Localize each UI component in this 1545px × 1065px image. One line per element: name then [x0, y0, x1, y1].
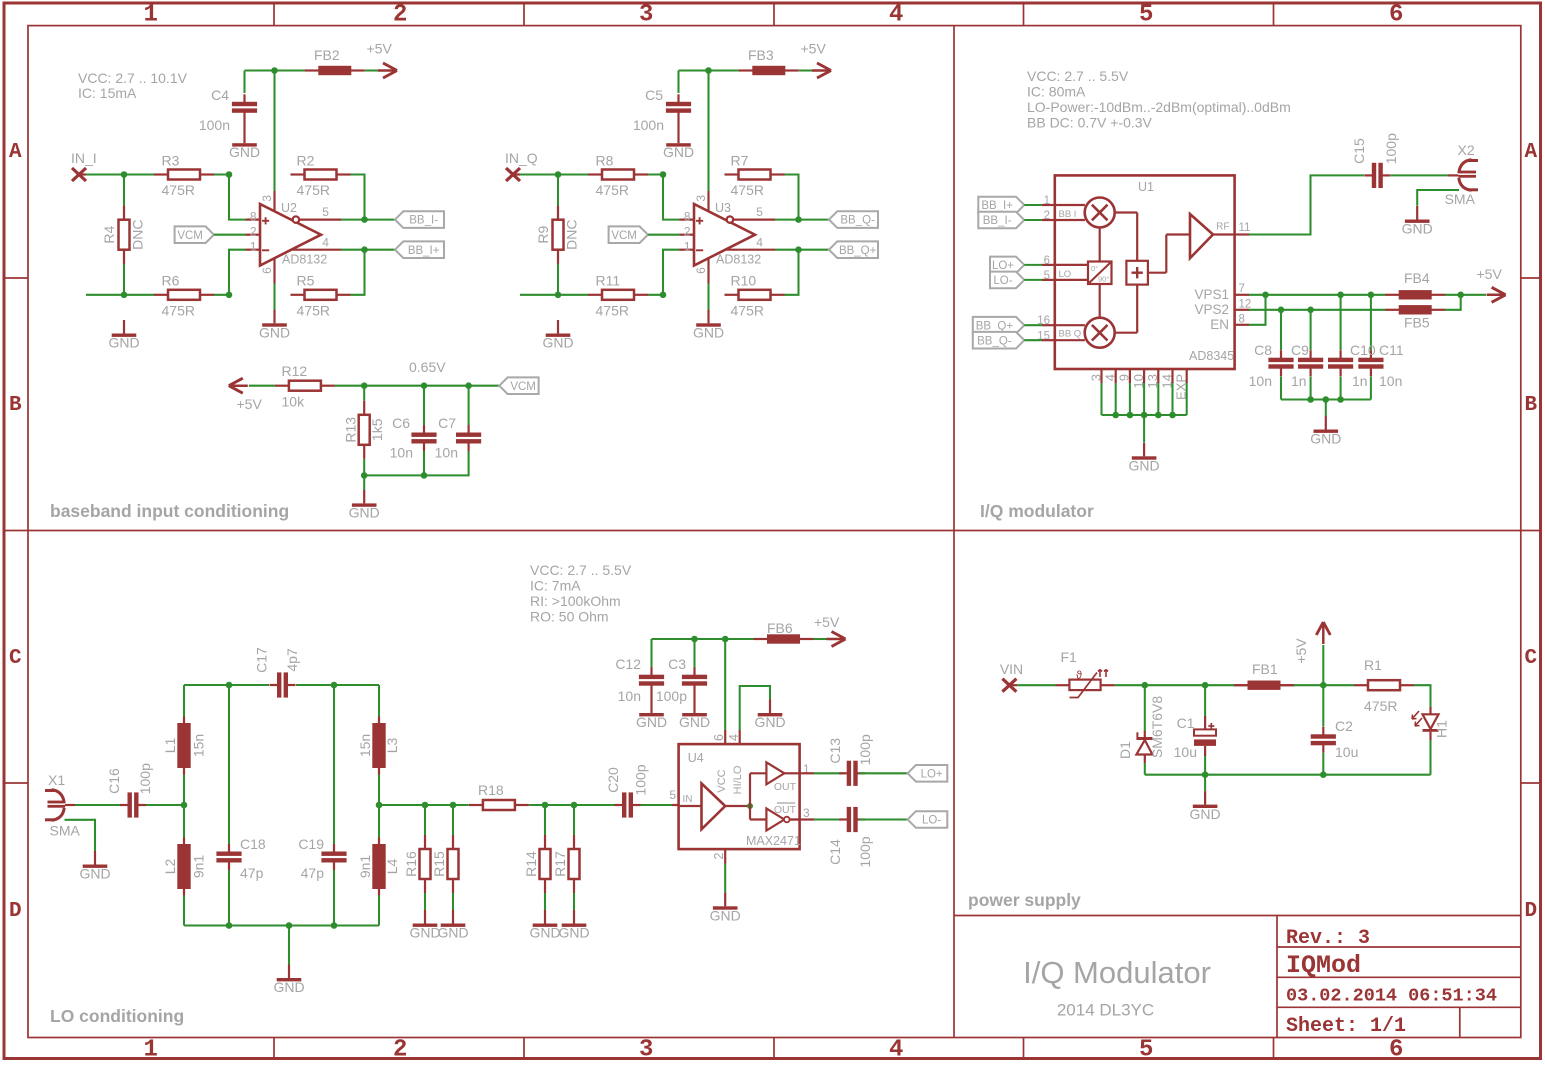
svg-text:5: 5 — [1139, 2, 1153, 29]
svg-text:+5V: +5V — [1477, 266, 1503, 282]
svg-text:6: 6 — [694, 267, 708, 274]
svg-text:R16: R16 — [403, 851, 419, 877]
svg-text:VPS1: VPS1 — [1194, 287, 1229, 302]
svg-text:100n: 100n — [199, 117, 230, 133]
svg-text:IC: 80mA: IC: 80mA — [1027, 84, 1086, 100]
svg-text:C3: C3 — [668, 656, 686, 672]
svg-text:03.02.2014 06:51:34: 03.02.2014 06:51:34 — [1286, 986, 1497, 1007]
svg-text:475R: 475R — [297, 182, 330, 198]
svg-text:R4: R4 — [101, 226, 117, 244]
svg-text:R9: R9 — [535, 226, 551, 244]
svg-text:13: 13 — [1145, 374, 1160, 388]
svg-text:U1: U1 — [1138, 180, 1154, 194]
svg-text:LO: LO — [1059, 269, 1072, 280]
svg-text:FB1: FB1 — [1252, 661, 1278, 677]
svg-text:4p7: 4p7 — [284, 648, 300, 672]
svg-text:A: A — [1525, 141, 1538, 164]
svg-text:AD8132: AD8132 — [282, 252, 327, 266]
svg-text:9n1: 9n1 — [357, 855, 373, 879]
svg-text:3: 3 — [639, 1037, 653, 1064]
svg-text:R3: R3 — [162, 153, 180, 169]
svg-text:C1: C1 — [1177, 715, 1195, 731]
svg-text:GND: GND — [229, 144, 260, 160]
svg-text:I/Q Modulator: I/Q Modulator — [1023, 955, 1211, 990]
svg-text:7: 7 — [1239, 283, 1245, 295]
svg-text:C13: C13 — [827, 738, 843, 764]
svg-text:LO+: LO+ — [992, 260, 1014, 272]
svg-text:1: 1 — [144, 1037, 158, 1064]
svg-text:47p: 47p — [240, 865, 264, 881]
svg-text:C2: C2 — [1335, 718, 1353, 734]
svg-text:IN_Q: IN_Q — [505, 150, 538, 166]
svg-text:C6: C6 — [392, 415, 410, 431]
svg-text:VCM: VCM — [177, 230, 203, 242]
svg-text:EN: EN — [1210, 317, 1229, 332]
svg-text:HI/LO: HI/LO — [732, 765, 744, 794]
svg-text:+5V: +5V — [1293, 638, 1309, 664]
svg-text:+5V: +5V — [801, 41, 827, 57]
svg-text:FB2: FB2 — [314, 47, 340, 63]
svg-text:3: 3 — [1088, 374, 1103, 381]
svg-text:VCC: VCC — [716, 769, 728, 792]
svg-text:RI: >100kOhm: RI: >100kOhm — [530, 593, 621, 609]
svg-text:BB_Q-: BB_Q- — [840, 215, 875, 227]
svg-text:3: 3 — [639, 2, 653, 29]
svg-text:R1: R1 — [1364, 657, 1382, 673]
svg-text:BB_I+: BB_I+ — [981, 200, 1013, 212]
svg-text:IC: 7mA: IC: 7mA — [530, 578, 581, 594]
svg-text:GND: GND — [1190, 806, 1221, 822]
svg-text:D: D — [1525, 900, 1538, 923]
svg-text:SM6T6V8: SM6T6V8 — [1149, 696, 1165, 758]
svg-text:3: 3 — [803, 806, 810, 820]
svg-text:BB_Q-: BB_Q- — [977, 335, 1012, 347]
svg-text:R18: R18 — [478, 782, 504, 798]
svg-text:9n1: 9n1 — [191, 855, 207, 879]
svg-text:5: 5 — [756, 205, 763, 219]
svg-text:GND: GND — [79, 866, 110, 882]
svg-text:D1: D1 — [1117, 741, 1133, 759]
svg-text:GND: GND — [349, 505, 380, 521]
svg-text:R12: R12 — [282, 363, 308, 379]
svg-text:6: 6 — [260, 267, 274, 274]
svg-text:IQMod: IQMod — [1286, 951, 1361, 980]
svg-text:C19: C19 — [298, 836, 324, 852]
svg-text:3: 3 — [260, 195, 274, 202]
svg-text:1k5: 1k5 — [369, 418, 385, 441]
svg-text:LO+: LO+ — [921, 768, 943, 780]
svg-text:OUT: OUT — [774, 781, 797, 793]
svg-text:14: 14 — [1159, 374, 1174, 388]
svg-text:RF: RF — [1216, 222, 1229, 233]
svg-text:L2: L2 — [162, 859, 178, 875]
svg-text:VPS2: VPS2 — [1194, 302, 1229, 317]
svg-text:R8: R8 — [596, 153, 614, 169]
svg-text:AD8132: AD8132 — [716, 252, 761, 266]
svg-text:C: C — [9, 647, 22, 670]
svg-text:VCM: VCM — [510, 381, 536, 393]
svg-text:F1: F1 — [1061, 649, 1078, 665]
svg-text:1: 1 — [250, 239, 257, 253]
svg-text:15n: 15n — [191, 734, 207, 757]
svg-text:C7: C7 — [438, 415, 456, 431]
svg-text:GND: GND — [108, 335, 139, 351]
svg-text:U2: U2 — [281, 201, 297, 215]
svg-text:BB_I+: BB_I+ — [408, 245, 440, 257]
svg-text:VCC: 2.7 .. 10.1V: VCC: 2.7 .. 10.1V — [78, 70, 188, 86]
svg-text:100p: 100p — [1383, 133, 1399, 164]
svg-text:DNC: DNC — [564, 220, 580, 250]
svg-text:LO conditioning: LO conditioning — [50, 1006, 184, 1026]
svg-text:C16: C16 — [106, 768, 122, 794]
svg-text:BB DC: 0.7V +-0.3V: BB DC: 0.7V +-0.3V — [1027, 115, 1153, 131]
svg-text:9: 9 — [1117, 374, 1132, 381]
svg-text:475R: 475R — [596, 182, 629, 198]
svg-text:VIN: VIN — [1000, 661, 1023, 677]
svg-text:4: 4 — [756, 235, 763, 249]
svg-text:100p: 100p — [632, 764, 648, 795]
svg-text:GND: GND — [409, 925, 440, 941]
svg-text:+5V: +5V — [367, 41, 393, 57]
svg-text:VCM: VCM — [611, 230, 637, 242]
svg-text:GND: GND — [636, 714, 667, 730]
svg-text:4: 4 — [322, 235, 329, 249]
svg-text:ϑ: ϑ — [1076, 670, 1082, 682]
svg-text:FB4: FB4 — [1404, 270, 1430, 286]
svg-text:90°: 90° — [1098, 275, 1109, 284]
svg-text:100n: 100n — [633, 117, 664, 133]
svg-text:6: 6 — [712, 734, 726, 741]
svg-text:100p: 100p — [857, 734, 873, 765]
svg-text:GND: GND — [437, 925, 468, 941]
svg-text:X2: X2 — [1458, 142, 1475, 158]
svg-text:C10: C10 — [1350, 342, 1376, 358]
svg-text:U3: U3 — [715, 201, 731, 215]
svg-text:GND: GND — [529, 925, 560, 941]
svg-text:BB I: BB I — [1059, 209, 1077, 220]
svg-text:B: B — [9, 394, 22, 417]
svg-text:R17: R17 — [552, 851, 568, 877]
svg-text:+5V: +5V — [814, 614, 840, 630]
svg-text:GND: GND — [558, 925, 589, 941]
svg-text:OUT: OUT — [774, 804, 797, 816]
svg-text:475R: 475R — [162, 182, 195, 198]
svg-text:GND: GND — [1310, 431, 1341, 447]
svg-text:U4: U4 — [688, 751, 704, 765]
svg-text:power supply: power supply — [968, 890, 1081, 910]
svg-text:GND: GND — [663, 144, 694, 160]
svg-text:B: B — [1525, 394, 1538, 417]
svg-text:GND: GND — [1129, 458, 1160, 474]
svg-text:X1: X1 — [48, 772, 65, 788]
svg-text:R10: R10 — [731, 273, 757, 289]
svg-text:15n: 15n — [357, 734, 373, 757]
svg-text:100p: 100p — [857, 836, 873, 867]
svg-text:VCC: 2.7 .. 5.5V: VCC: 2.7 .. 5.5V — [530, 562, 632, 578]
svg-text:DNC: DNC — [130, 220, 146, 250]
svg-text:4: 4 — [1103, 374, 1118, 381]
svg-text:3: 3 — [694, 195, 708, 202]
svg-text:R7: R7 — [731, 153, 749, 169]
svg-text:A: A — [9, 141, 22, 164]
svg-text:LO-Power:-10dBm..-2dBm(optimal: LO-Power:-10dBm..-2dBm(optimal)..0dBm — [1027, 99, 1291, 115]
svg-text:GND: GND — [1402, 221, 1433, 237]
svg-text:C14: C14 — [827, 839, 843, 865]
svg-text:Sheet: 1/1: Sheet: 1/1 — [1286, 1015, 1406, 1038]
svg-text:C11: C11 — [1379, 342, 1404, 358]
svg-text:R6: R6 — [162, 273, 180, 289]
svg-text:0.65V: 0.65V — [409, 359, 446, 375]
svg-text:R13: R13 — [343, 417, 359, 443]
svg-text:C17: C17 — [254, 647, 270, 673]
svg-text:GND: GND — [679, 714, 710, 730]
svg-text:BB_Q+: BB_Q+ — [839, 245, 877, 257]
svg-text:BB_I-: BB_I- — [983, 215, 1012, 227]
svg-text:C15: C15 — [1351, 138, 1367, 164]
svg-text:8: 8 — [250, 209, 257, 223]
svg-text:R5: R5 — [297, 273, 315, 289]
svg-text:BB Q: BB Q — [1059, 329, 1082, 340]
svg-text:baseband input conditioning: baseband input conditioning — [50, 501, 289, 521]
svg-text:D: D — [9, 900, 22, 923]
svg-text:+5V: +5V — [237, 396, 263, 412]
svg-text:L1: L1 — [162, 738, 178, 754]
svg-text:10n: 10n — [435, 445, 458, 461]
svg-text:C4: C4 — [211, 87, 229, 103]
svg-text:LO-: LO- — [993, 275, 1012, 287]
svg-text:FB5: FB5 — [1404, 315, 1430, 331]
svg-text:10n: 10n — [618, 688, 641, 704]
svg-text:1: 1 — [144, 2, 158, 29]
svg-text:L3: L3 — [384, 738, 400, 754]
svg-text:10n: 10n — [1249, 373, 1272, 389]
svg-text:R14: R14 — [523, 851, 539, 877]
svg-text:5: 5 — [1139, 1037, 1153, 1064]
svg-text:1n: 1n — [1291, 373, 1307, 389]
svg-text:BB_Q+: BB_Q+ — [976, 320, 1014, 332]
svg-text:C12: C12 — [615, 656, 641, 672]
svg-text:C20: C20 — [605, 767, 621, 793]
svg-text:2: 2 — [393, 2, 407, 29]
svg-text:10u: 10u — [1174, 744, 1197, 760]
svg-text:4: 4 — [889, 2, 903, 29]
svg-text:475R: 475R — [731, 302, 764, 318]
svg-text:0°: 0° — [1091, 264, 1098, 273]
svg-text:GND: GND — [259, 325, 290, 341]
svg-text:IN_I: IN_I — [71, 150, 97, 166]
svg-text:10n: 10n — [390, 445, 413, 461]
svg-text:R15: R15 — [431, 851, 447, 877]
svg-text:8: 8 — [684, 209, 691, 223]
svg-text:6: 6 — [1389, 1037, 1403, 1064]
svg-text:47p: 47p — [301, 865, 325, 881]
svg-text:L4: L4 — [384, 859, 400, 875]
svg-text:10: 10 — [1131, 374, 1146, 388]
svg-text:C5: C5 — [645, 87, 663, 103]
svg-text:RO: 50 Ohm: RO: 50 Ohm — [530, 609, 609, 625]
svg-text:2: 2 — [393, 1037, 407, 1064]
svg-text:475R: 475R — [596, 302, 629, 318]
svg-text:6: 6 — [1389, 2, 1403, 29]
svg-text:SMA: SMA — [50, 823, 81, 839]
svg-text:C18: C18 — [240, 836, 266, 852]
svg-text:FB6: FB6 — [767, 620, 793, 636]
svg-text:2: 2 — [250, 224, 257, 238]
svg-text:475R: 475R — [731, 182, 764, 198]
svg-text:C: C — [1525, 647, 1538, 670]
svg-text:475R: 475R — [162, 302, 195, 318]
svg-text:GND: GND — [710, 908, 741, 924]
svg-text:MAX2471: MAX2471 — [746, 834, 801, 848]
svg-text:1n: 1n — [1352, 373, 1368, 389]
svg-text:C9: C9 — [1291, 342, 1309, 358]
svg-text:I/Q modulator: I/Q modulator — [980, 501, 1094, 521]
svg-text:GND: GND — [693, 325, 724, 341]
svg-text:GND: GND — [273, 979, 304, 995]
svg-text:2: 2 — [712, 852, 726, 859]
svg-text:IN: IN — [683, 794, 693, 805]
svg-text:475R: 475R — [1364, 698, 1397, 714]
svg-text:R11: R11 — [596, 273, 621, 289]
svg-text:11: 11 — [1239, 222, 1251, 234]
svg-text:GND: GND — [754, 714, 785, 730]
svg-text:5: 5 — [322, 205, 329, 219]
svg-text:SMA: SMA — [1445, 191, 1476, 207]
svg-text:100p: 100p — [137, 763, 153, 794]
svg-text:100p: 100p — [656, 688, 687, 704]
svg-text:10u: 10u — [1335, 744, 1358, 760]
svg-text:1: 1 — [684, 239, 691, 253]
svg-text:2: 2 — [684, 224, 691, 238]
svg-text:4: 4 — [889, 1037, 903, 1064]
svg-text:475R: 475R — [297, 302, 330, 318]
svg-text:IC: 15mA: IC: 15mA — [78, 85, 137, 101]
svg-text:10k: 10k — [282, 394, 306, 410]
svg-text:5: 5 — [669, 788, 676, 802]
svg-text:EXP: EXP — [1174, 374, 1189, 400]
svg-text:R2: R2 — [297, 153, 315, 169]
svg-text:VCC: 2.7 .. 5.5V: VCC: 2.7 .. 5.5V — [1027, 68, 1129, 84]
svg-text:C8: C8 — [1254, 342, 1272, 358]
svg-text:AD8345: AD8345 — [1189, 349, 1234, 363]
svg-text:Rev.: 3: Rev.: 3 — [1286, 927, 1370, 950]
svg-text:LO-: LO- — [922, 815, 941, 827]
svg-text:2014 DL3YC: 2014 DL3YC — [1057, 1001, 1154, 1020]
svg-text:BB_I-: BB_I- — [409, 215, 438, 227]
svg-text:GND: GND — [542, 335, 573, 351]
svg-text:FB3: FB3 — [748, 47, 774, 63]
svg-text:10n: 10n — [1379, 373, 1402, 389]
svg-text:H1: H1 — [1434, 720, 1450, 738]
